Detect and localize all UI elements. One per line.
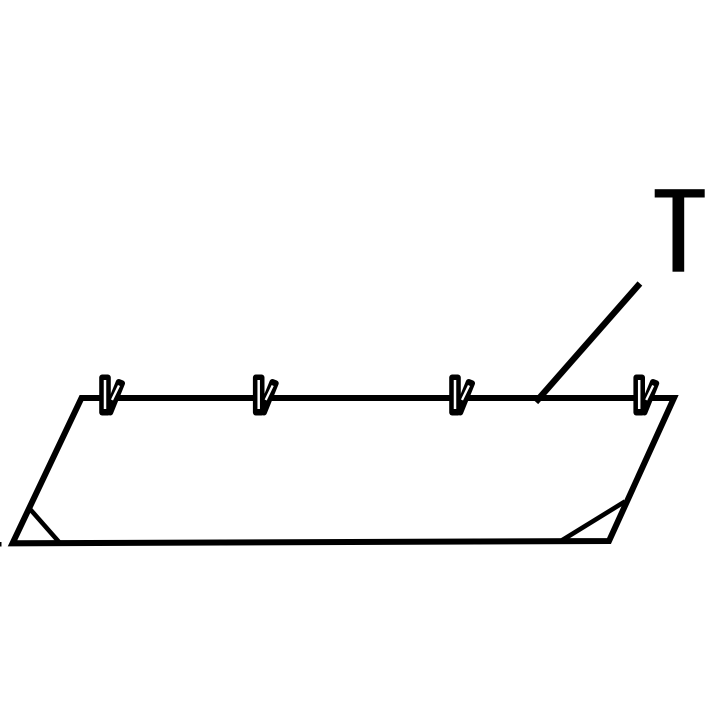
- tick mark 2: [253, 375, 280, 417]
- corner fold bottom-right: [560, 502, 625, 542]
- leader line to label T: [536, 284, 640, 403]
- tick mark 1: [99, 375, 126, 417]
- panel outline (parallelogram): [13, 398, 675, 543]
- tick mark 4: [633, 375, 660, 417]
- corner fold bottom-left: [30, 509, 60, 543]
- stray mark bottom-left margin: [0, 542, 2, 547]
- tick mark 3: [449, 375, 476, 417]
- label T: [655, 189, 705, 272]
